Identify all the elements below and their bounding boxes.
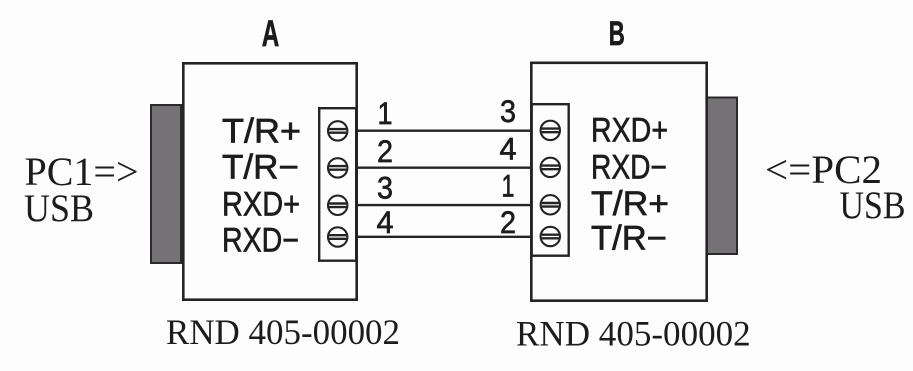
svg-text:T/R−: T/R− (222, 149, 299, 187)
svg-text:RXD+: RXD+ (591, 112, 668, 150)
svg-text:T/R−: T/R− (591, 220, 667, 258)
svg-text:T/R+: T/R+ (591, 185, 669, 223)
svg-text:RXD−: RXD− (591, 148, 667, 186)
svg-text:RXD−: RXD− (222, 221, 299, 259)
svg-text:2: 2 (377, 133, 393, 169)
svg-text:B: B (609, 15, 625, 53)
svg-text:1: 1 (378, 95, 393, 131)
svg-text:T/R+: T/R+ (222, 112, 301, 150)
svg-text:3: 3 (500, 93, 516, 129)
svg-text:4: 4 (500, 131, 517, 167)
svg-text:1: 1 (502, 168, 515, 204)
svg-text:RND 405-00002: RND 405-00002 (516, 313, 751, 353)
svg-text:2: 2 (500, 204, 516, 240)
svg-text:4: 4 (377, 204, 394, 240)
svg-text:3: 3 (377, 170, 393, 206)
svg-text:USB: USB (840, 184, 906, 227)
svg-text:RXD+: RXD+ (222, 186, 300, 224)
svg-text:A: A (262, 13, 280, 54)
svg-text:USB: USB (24, 187, 94, 230)
svg-text:RND 405-00002: RND 405-00002 (166, 312, 400, 352)
